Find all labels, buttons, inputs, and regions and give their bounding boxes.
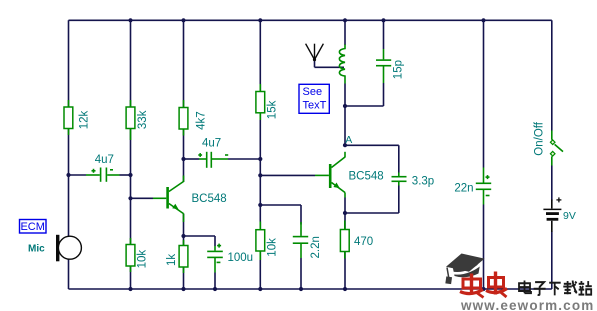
svg-text:470: 470	[354, 236, 373, 248]
svg-text:TexT: TexT	[303, 100, 327, 112]
svg-text:See: See	[303, 86, 323, 98]
svg-text:BC548: BC548	[349, 171, 384, 183]
svg-text:3.3p: 3.3p	[412, 176, 434, 188]
svg-text:1k: 1k	[166, 254, 178, 266]
svg-text:4u7: 4u7	[95, 154, 114, 166]
svg-text:100u: 100u	[228, 252, 254, 264]
svg-text:Mic: Mic	[28, 244, 45, 255]
svg-text:www.eeworm.com: www.eeworm.com	[460, 298, 594, 311]
svg-text:12k: 12k	[78, 111, 90, 130]
svg-text:9V: 9V	[563, 210, 576, 222]
svg-text:15k: 15k	[267, 100, 279, 119]
svg-text:33k: 33k	[137, 110, 149, 129]
svg-text:On/Off: On/Off	[534, 121, 546, 155]
svg-text:4u7: 4u7	[202, 138, 221, 150]
svg-text:A: A	[345, 134, 352, 146]
svg-text:15p: 15p	[393, 60, 405, 79]
svg-text:ECM: ECM	[20, 221, 44, 233]
svg-text:10k: 10k	[267, 238, 279, 257]
svg-text:BC548: BC548	[192, 193, 227, 205]
svg-text:4k7: 4k7	[196, 111, 208, 130]
svg-text:10k: 10k	[136, 250, 148, 269]
svg-text:22n: 22n	[454, 183, 473, 195]
svg-text:2.2n: 2.2n	[310, 236, 322, 258]
